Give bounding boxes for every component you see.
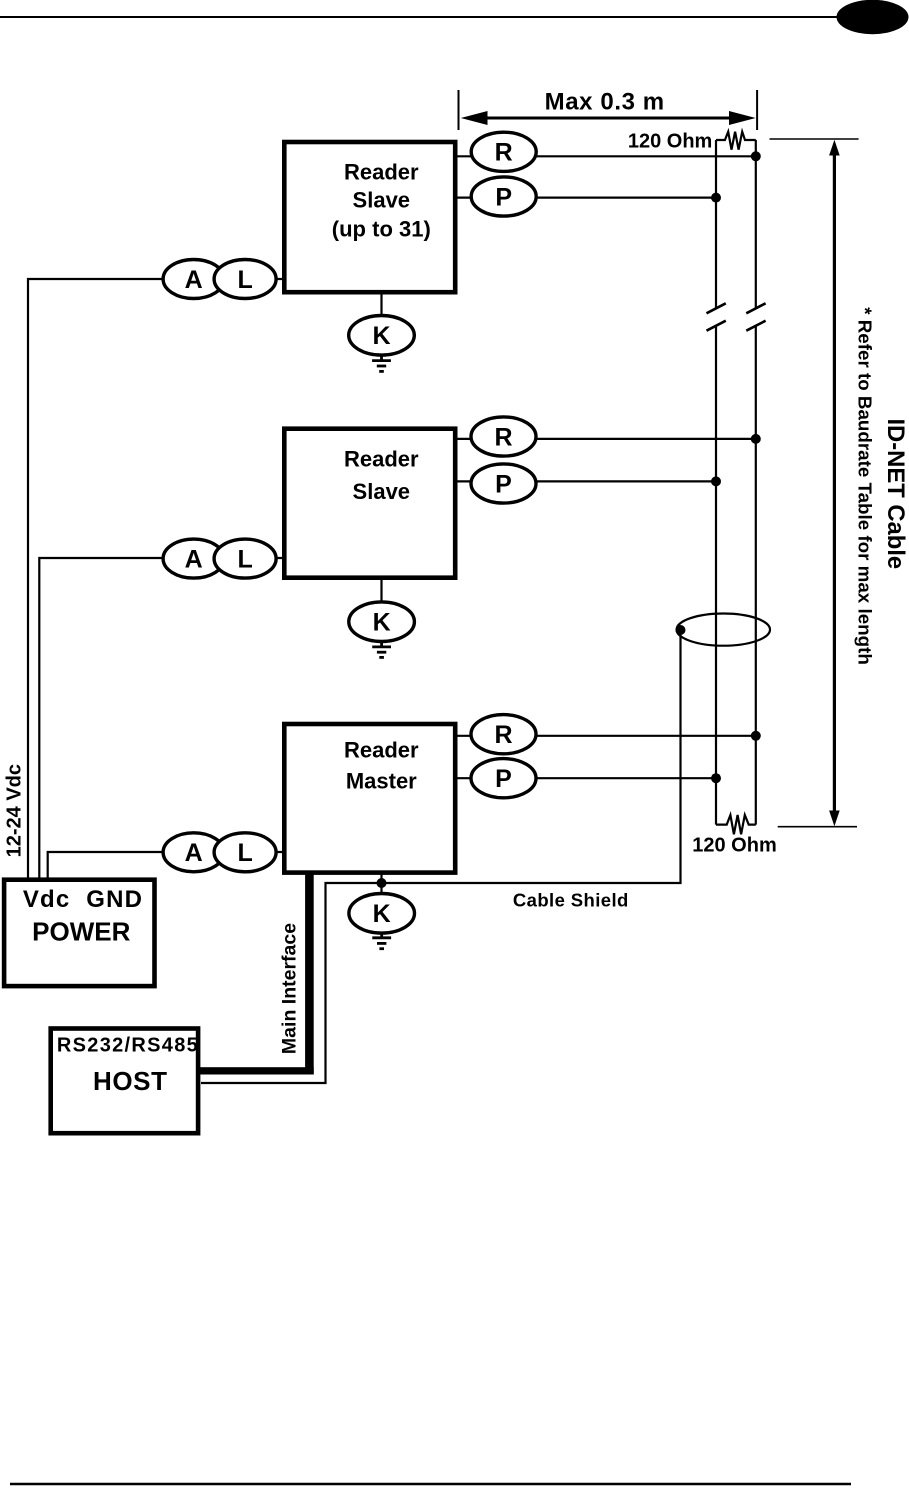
- svg-text:120 Ohm: 120 Ohm: [692, 835, 776, 857]
- page header ellipse: [837, 0, 909, 34]
- wire: reader 2 A power line: [39, 558, 282, 881]
- svg-text:Reader: Reader: [344, 737, 419, 762]
- svg-text:L: L: [237, 839, 252, 867]
- junction dot reader 3 R: [751, 731, 761, 741]
- svg-text:RS232/RS485: RS232/RS485: [57, 1035, 199, 1057]
- wire: reader 3 K stub: [380, 873, 382, 894]
- svg-text:K: K: [373, 900, 391, 928]
- svg-text:A: A: [185, 545, 203, 573]
- connector K reader 1: [349, 316, 415, 356]
- connector K reader 3: [349, 894, 415, 934]
- connector A reader 3: [163, 833, 224, 872]
- connector L reader 2: [214, 539, 276, 578]
- svg-text:Max 0.3 m: Max 0.3 m: [545, 88, 665, 115]
- reader master box: [284, 724, 455, 873]
- ground reader 3: [372, 933, 391, 949]
- svg-text:Slave: Slave: [353, 187, 411, 212]
- page header rule: [0, 16, 838, 18]
- junction dot reader 1 R: [751, 151, 761, 161]
- connector R reader 3: [471, 715, 536, 754]
- svg-text:L: L: [237, 545, 252, 573]
- svg-text:Master: Master: [346, 769, 417, 794]
- svg-text:ID-NET Cable: ID-NET Cable: [882, 418, 909, 569]
- reader slave 2 box: [284, 429, 455, 578]
- svg-text:(up to 31): (up to 31): [332, 217, 431, 242]
- svg-text:POWER: POWER: [32, 917, 130, 947]
- svg-text:L: L: [237, 266, 252, 294]
- wire: reader 3 R line to right bus: [457, 735, 756, 737]
- svg-text:P: P: [495, 183, 512, 211]
- svg-text:Vdc GND: Vdc GND: [23, 886, 143, 913]
- wire: reader 1 K stub: [380, 292, 382, 317]
- ground reader 2: [372, 642, 391, 658]
- connector K reader 2: [349, 602, 415, 642]
- junction dot reader 2 P: [711, 476, 721, 486]
- cable shield loop ellipse: [677, 614, 770, 646]
- svg-text:R: R: [494, 721, 512, 749]
- svg-text:K: K: [372, 322, 390, 350]
- junction dot cable shield: [676, 625, 686, 635]
- svg-text:A: A: [185, 266, 203, 294]
- resistor 120 Ohm top termination: [716, 132, 756, 150]
- junction dot reader 1 P: [711, 193, 721, 203]
- max 0.3 m dimension arrow: [459, 88, 758, 130]
- svg-text:R: R: [495, 139, 513, 167]
- svg-text:HOST: HOST: [93, 1066, 168, 1096]
- wire: cable shield run: [201, 630, 681, 1084]
- connector L reader 1: [214, 260, 276, 299]
- svg-text:Main Interface: Main Interface: [279, 923, 301, 1054]
- connector P reader 1: [471, 177, 536, 216]
- svg-text:K: K: [373, 609, 391, 637]
- resistor 120 Ohm bottom termination: [716, 815, 756, 834]
- wire: reader 1 P line to left bus: [457, 197, 716, 199]
- left bus break: [707, 303, 726, 330]
- connector P reader 3: [471, 759, 536, 798]
- junction dot K master: [377, 878, 387, 888]
- connector R reader 2: [471, 417, 536, 456]
- host box: [51, 1029, 199, 1134]
- svg-text:P: P: [495, 470, 512, 498]
- wire: reader 2 R line to right bus: [457, 438, 756, 440]
- page footer rule: [10, 1483, 851, 1485]
- svg-text:P: P: [495, 765, 512, 793]
- svg-text:Cable Shield: Cable Shield: [513, 889, 629, 910]
- id-net cable length dimension arrow: [770, 139, 859, 827]
- svg-text:A: A: [185, 839, 203, 867]
- svg-text:12-24 Vdc: 12-24 Vdc: [4, 764, 26, 857]
- wire: reader 1 R line to right bus: [457, 155, 756, 157]
- wire: reader 2 K stub: [380, 578, 382, 603]
- right bus wire: [755, 140, 757, 825]
- reader slave 1 box: [284, 142, 455, 292]
- main interface thick link: [305, 871, 314, 1075]
- wire: reader 1 A power line: [28, 279, 283, 881]
- svg-text:Reader: Reader: [344, 160, 419, 185]
- junction dot reader 3 P: [711, 773, 721, 783]
- connector A reader 1: [163, 260, 224, 299]
- connector R reader 1: [471, 132, 536, 171]
- wire: reader 3 A power line: [48, 852, 283, 881]
- wire: reader 3 P line to left bus: [457, 777, 716, 779]
- ground reader 1: [372, 355, 391, 371]
- svg-text:R: R: [494, 423, 512, 451]
- power supply box: [4, 880, 154, 986]
- connector A reader 2: [163, 539, 224, 578]
- svg-text:Slave: Slave: [353, 479, 411, 504]
- wire: reader 2 P line to left bus: [457, 480, 716, 482]
- svg-text:Reader: Reader: [344, 446, 419, 471]
- connector L reader 3: [214, 833, 276, 872]
- right bus break: [746, 303, 765, 330]
- svg-text:* Refer to Baudrate Table for: * Refer to Baudrate Table for max length: [854, 307, 875, 665]
- left bus wire: [715, 140, 717, 825]
- svg-text:120 Ohm: 120 Ohm: [628, 130, 712, 152]
- connector P reader 2: [471, 464, 536, 503]
- junction dot reader 2 R: [751, 434, 761, 444]
